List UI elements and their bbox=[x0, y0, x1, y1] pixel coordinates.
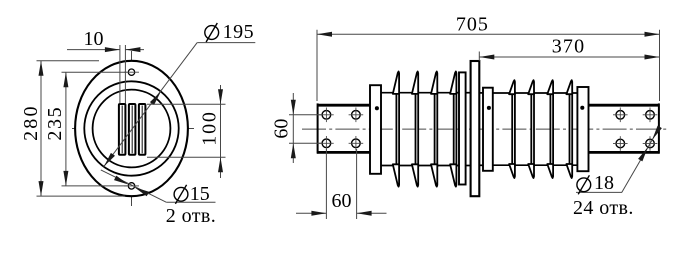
terminal slot 3 bbox=[139, 104, 146, 155]
svg-text:100: 100 bbox=[199, 110, 221, 145]
left end cap plate bbox=[370, 85, 381, 174]
small shed fin 4 bbox=[570, 93, 573, 166]
busbar hole 1 bbox=[322, 111, 331, 120]
dim 235 line bbox=[65, 72, 67, 186]
busbar hole 4 bbox=[352, 139, 361, 148]
centerline vertical (left view) bbox=[131, 51, 133, 206]
dim 60 vert line bbox=[292, 93, 294, 163]
svg-text:18: 18 bbox=[594, 172, 614, 194]
busbar right segment bbox=[589, 104, 660, 107]
large shed fin 1 bbox=[396, 92, 399, 166]
dim D195 text bbox=[205, 26, 219, 40]
dim 60 horiz extension lines bbox=[325, 149, 327, 219]
circle D195 bbox=[84, 81, 178, 175]
dim 370 extension line bbox=[478, 52, 480, 62]
mounting flange (center) bbox=[471, 61, 480, 196]
svg-text:10: 10 bbox=[84, 28, 104, 50]
dim 705 extension lines bbox=[316, 30, 318, 101]
right end cap plate bbox=[577, 87, 588, 171]
svg-text:2 отв.: 2 отв. bbox=[166, 205, 216, 227]
busbar hole 3 bbox=[322, 139, 331, 148]
dim 100 extension lines bbox=[147, 103, 226, 105]
svg-text:60: 60 bbox=[332, 190, 352, 212]
large shed fin 3 bbox=[435, 92, 438, 166]
bolt dot on plate right of flange bbox=[487, 106, 491, 110]
svg-text:60: 60 bbox=[270, 119, 292, 139]
small shed fin 1 bbox=[512, 93, 515, 166]
dim D15 leader bbox=[101, 170, 166, 202]
svg-text:705: 705 bbox=[456, 14, 489, 36]
terminal slot 2 bbox=[129, 104, 136, 155]
inner circle bbox=[93, 90, 171, 168]
core line bottom left section bbox=[381, 165, 459, 167]
plate right of flange bbox=[483, 88, 493, 171]
core line top right section bbox=[493, 92, 578, 94]
dim D15 text bbox=[174, 187, 188, 201]
plate left of flange bbox=[459, 72, 466, 184]
core connector at flange bbox=[466, 92, 471, 94]
small shed fin 2 bbox=[531, 93, 534, 166]
small shed fin 3 bbox=[550, 93, 553, 166]
bolt hole bottom bbox=[128, 183, 134, 189]
busbar left segment bbox=[317, 104, 370, 107]
core line top left section bbox=[381, 92, 459, 94]
busbar hole 8 bbox=[646, 139, 655, 148]
dim 10 extension lines bbox=[119, 45, 121, 104]
bolt dot on right end cap bbox=[580, 106, 584, 110]
svg-text:195: 195 bbox=[223, 21, 255, 43]
flange oval outline bbox=[75, 61, 188, 196]
busbar hole 2 bbox=[352, 111, 361, 120]
terminal slot 1 bbox=[119, 104, 126, 155]
dim 10 line bbox=[67, 49, 120, 51]
dim D18 leader bbox=[622, 133, 656, 192]
dim 280 extension lines bbox=[37, 60, 100, 62]
centerline horizontal (left view) bbox=[72, 128, 194, 130]
busbar hole 6 bbox=[646, 111, 655, 120]
svg-text:235: 235 bbox=[44, 106, 66, 141]
dim D18 text bbox=[577, 178, 591, 192]
svg-text:15: 15 bbox=[190, 183, 210, 205]
busbar hole 7 bbox=[616, 139, 625, 148]
dim D195 line bbox=[104, 43, 197, 167]
svg-text:370: 370 bbox=[552, 36, 586, 58]
large shed fin 2 bbox=[416, 92, 419, 166]
dim 705 line bbox=[317, 33, 660, 35]
core line bottom right section bbox=[493, 164, 578, 166]
dim 235 extension lines bbox=[62, 71, 127, 73]
bolt dot on left end cap bbox=[375, 106, 379, 110]
centerline horizontal (side view) bbox=[302, 128, 668, 130]
dim 100 line bbox=[220, 85, 222, 178]
busbar hole 5 bbox=[616, 111, 625, 120]
large shed fin 4 bbox=[454, 92, 457, 166]
svg-text:24 отв.: 24 отв. bbox=[573, 197, 634, 219]
dim 280 line bbox=[40, 61, 42, 196]
dim 370 line bbox=[479, 56, 659, 58]
bolt hole top bbox=[128, 69, 134, 75]
dim 60 vert extension lines bbox=[289, 114, 322, 116]
svg-text:280: 280 bbox=[20, 104, 42, 141]
dim 60 horiz line bbox=[296, 212, 326, 214]
